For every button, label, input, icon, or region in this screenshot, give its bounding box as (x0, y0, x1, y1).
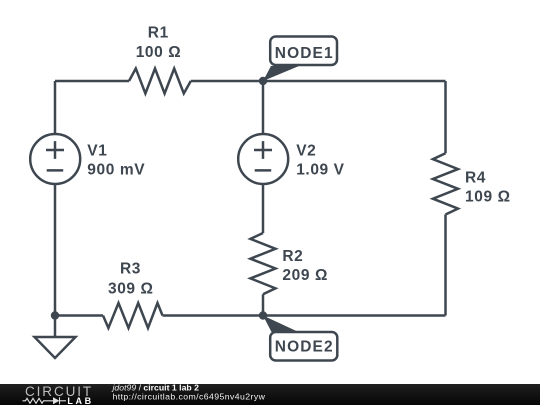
resistor R3 (103, 303, 163, 328)
V1 plus sign (46, 141, 64, 159)
resistor R4 (433, 153, 458, 214)
wire right vertical upper (top wire to R4) (444, 81, 447, 153)
NODE2 label box (270, 332, 337, 361)
wire middle vertical (R2 to node2) (262, 294, 265, 315)
CircuitLab logo schematic glyph (resistor + diode) (23, 397, 67, 404)
svg-text:1.09 V: 1.09 V (296, 162, 344, 179)
svg-text:NODE2: NODE2 (275, 339, 334, 356)
NODE1 flag pointer wedge (263, 66, 299, 81)
ground symbol triangle (35, 337, 76, 358)
wire bottom horizontal left segment (ground node to R3) (55, 314, 103, 317)
svg-text:100 Ω: 100 Ω (136, 44, 182, 61)
V2 plus sign (254, 141, 272, 159)
NODE1 label box (270, 37, 337, 66)
svg-text:LAB: LAB (67, 396, 93, 405)
svg-text:209 Ω: 209 Ω (282, 267, 328, 284)
resistor R2 (250, 233, 275, 294)
wire middle vertical (V2 to R2) (262, 185, 265, 234)
wire top horizontal left segment (V1 top to R1) (55, 80, 129, 83)
svg-text:R1: R1 (148, 25, 169, 42)
svg-text:109 Ω: 109 Ω (465, 188, 511, 205)
svg-text:R3: R3 (120, 261, 141, 278)
svg-text:http://circuitlab.com/c6495nv4: http://circuitlab.com/c6495nv4u2ryw (113, 391, 266, 401)
footer bar (0, 384, 540, 405)
voltage source V2 (238, 134, 288, 184)
wire middle vertical upper (node1 to V2) (262, 81, 265, 134)
junction node dot at NODE1 (259, 77, 267, 85)
junction node dot at ground/bottom-left (51, 311, 59, 319)
V2 minus sign (255, 169, 272, 172)
svg-text:900 mV: 900 mV (87, 162, 145, 179)
NODE2 flag pointer wedge (263, 316, 299, 333)
svg-text:NODE1: NODE1 (275, 45, 334, 62)
ground symbol stem (54, 316, 57, 338)
wire left vertical lower (V1 to bottom wire) (54, 185, 57, 316)
svg-text:V2: V2 (296, 142, 316, 159)
junction node dot at NODE2 (259, 311, 267, 319)
svg-text:R4: R4 (465, 169, 486, 186)
wire left vertical upper (top wire to V1) (54, 81, 57, 134)
svg-text:R2: R2 (282, 248, 303, 265)
svg-text:V1: V1 (87, 142, 107, 159)
voltage source V1 (30, 134, 80, 184)
svg-text:309 Ω: 309 Ω (108, 280, 154, 297)
V1 minus sign (47, 169, 64, 172)
wire right vertical lower (R4 to bottom wire) (444, 215, 447, 316)
wire bottom horizontal right segment (R3 to bottom-right corner) (163, 314, 446, 317)
wire top horizontal right segment (R1 to top-right corner) (191, 80, 446, 83)
resistor R1 (129, 69, 191, 94)
